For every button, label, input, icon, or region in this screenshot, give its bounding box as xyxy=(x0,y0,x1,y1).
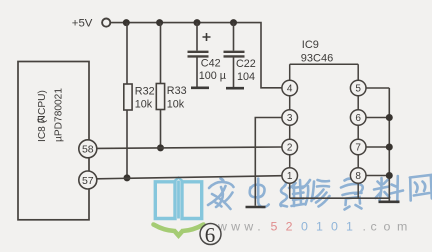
IC9 body bracket xyxy=(290,64,359,198)
resistor R32 xyxy=(124,23,132,178)
node: junction dot R32 to pin57 wire xyxy=(124,174,131,181)
IC8 pin 57 xyxy=(79,171,97,189)
svg-text:7: 7 xyxy=(355,143,361,154)
char xiu xyxy=(303,180,311,205)
label C22 value xyxy=(236,58,256,83)
char dian xyxy=(250,185,265,198)
node: junction dot R33 to pin58 wire xyxy=(157,144,164,151)
svg-text:10k: 10k xyxy=(167,99,185,111)
svg-text:6: 6 xyxy=(205,223,216,247)
wire: pin1/pin8 bottom to bus xyxy=(290,197,390,199)
watermark green swoosh xyxy=(154,225,204,236)
watermark circled 6 figure number xyxy=(200,223,221,247)
svg-text:IC8 (: IC8 ( xyxy=(37,119,48,142)
svg-text:C42: C42 xyxy=(201,58,221,70)
polarity + sign C42 xyxy=(203,33,211,41)
node: junction dot R32/rail xyxy=(123,19,130,26)
watermark url www.520101.com xyxy=(217,219,407,233)
ground (bus) xyxy=(379,201,400,204)
svg-text:6: 6 xyxy=(355,113,361,124)
ground (C22) xyxy=(226,87,244,90)
wire: pin6 to bus xyxy=(366,117,390,119)
IC9 pin 6 xyxy=(350,110,366,126)
capacitor C22 xyxy=(224,23,245,87)
IC9 pin 1 xyxy=(282,168,298,184)
label C42 value xyxy=(199,58,226,83)
svg-text:8: 8 xyxy=(355,171,361,182)
char zi xyxy=(341,179,363,194)
svg-text:R33: R33 xyxy=(167,85,187,97)
watermark book icon xyxy=(155,178,201,219)
wire: pin3 to ground xyxy=(255,118,282,206)
node: junction dot C42/rail xyxy=(194,19,201,26)
svg-text:+5V: +5V xyxy=(72,17,93,29)
svg-text:C22: C22 xyxy=(236,58,256,70)
IC9 93C46 labels xyxy=(301,39,333,65)
node: junction dot R33/rail xyxy=(156,19,163,26)
IC8 pin 58 xyxy=(79,140,97,158)
IC9 pin 3 xyxy=(282,110,298,126)
svg-text:µPD780021: µPD780021 xyxy=(53,88,64,142)
char wei xyxy=(280,181,287,207)
char jia xyxy=(209,179,234,189)
svg-text:100 µ: 100 µ xyxy=(199,70,226,82)
svg-text:57: 57 xyxy=(82,175,94,187)
svg-text:1: 1 xyxy=(287,171,293,182)
watermark chinese characters xyxy=(208,175,432,210)
svg-text:104: 104 xyxy=(237,71,255,83)
svg-text:5: 5 xyxy=(355,84,361,95)
+5V terminal circle xyxy=(102,19,110,27)
wire: +5V top rail xyxy=(111,23,283,88)
wire: right ground bus xyxy=(388,88,390,201)
IC9 pin 4 xyxy=(282,80,298,96)
IC8 label text (rotated) xyxy=(37,88,65,142)
node: junction dot C22/rail xyxy=(230,19,237,26)
IC8 (CPU) box U-IC8 xyxy=(18,62,89,220)
label R32 value xyxy=(135,86,155,111)
wire: pin57 to pin1 xyxy=(97,176,283,179)
wire: pin5 to bus xyxy=(366,87,390,89)
wire: pin7 to bus xyxy=(366,146,390,148)
svg-text:10k: 10k xyxy=(135,99,153,111)
IC9 pin 5 xyxy=(350,80,366,96)
ground (pin3) xyxy=(246,206,266,209)
svg-text:3: 3 xyxy=(287,113,293,124)
svg-text:2: 2 xyxy=(287,143,293,154)
IC9 pin 8 xyxy=(350,168,366,184)
svg-text:R32: R32 xyxy=(135,86,155,98)
resistor R33 xyxy=(156,23,164,148)
svg-text:IC9: IC9 xyxy=(302,39,319,51)
char liao xyxy=(374,178,390,201)
char wang xyxy=(410,175,432,201)
label R33 value xyxy=(167,85,187,111)
svg-text:4: 4 xyxy=(287,84,293,95)
node: junction dot pin7/bus xyxy=(386,144,393,151)
svg-text:93C46: 93C46 xyxy=(301,53,333,65)
IC9 pin 2 xyxy=(282,139,298,155)
IC9 pin 7 xyxy=(350,139,366,155)
node: junction dot pin6/bus xyxy=(386,114,393,121)
svg-text:CPU): CPU) xyxy=(37,90,48,115)
node: junction dot pin8/bus xyxy=(386,172,393,179)
ground (C42) xyxy=(191,87,209,90)
wire: pin58 to pin2 xyxy=(97,147,283,148)
capacitor C42 (electrolytic) xyxy=(188,23,209,87)
svg-text:58: 58 xyxy=(82,144,94,156)
wire: pin8 to bus xyxy=(366,175,390,177)
